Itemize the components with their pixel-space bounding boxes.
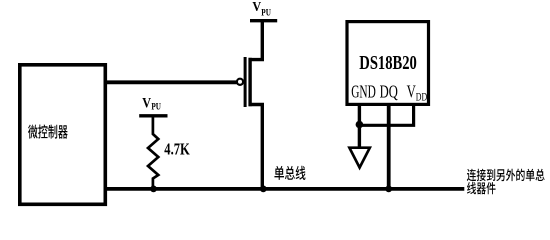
transistor Q1 drain wire to VPU (249, 22, 263, 60)
svg-text:4.7K: 4.7K (164, 139, 190, 158)
svg-text:DS18B20: DS18B20 (359, 53, 417, 74)
power VPU rail (resistor) (139, 114, 167, 117)
wire gate (box to Q1) (105, 80, 237, 84)
pin VDD wire (tied to GND) (359, 104, 413, 125)
label 微控制器 (28, 124, 68, 138)
node junction: Q1 source at bus (260, 186, 267, 193)
power VPU rail (top) (250, 19, 277, 22)
pin labels GND DQ VDD (351, 81, 427, 103)
pin GND wire (358, 104, 361, 148)
label VPU (top) (252, 0, 271, 19)
node junction: resistor to bus (150, 186, 157, 193)
transistor Q1 P-MOSFET gate bubble (237, 79, 243, 85)
label 连接到另外的单总 (line 1) (467, 169, 545, 182)
svg-text:GND: GND (351, 81, 376, 101)
svg-text:PU: PU (261, 9, 271, 19)
svg-text:PU: PU (151, 103, 161, 113)
transistor Q1 channel (248, 58, 251, 106)
svg-text:DD: DD (416, 91, 427, 103)
node junction: DQ at bus (385, 186, 392, 193)
microcontroller box (20, 65, 106, 205)
svg-text:V: V (252, 0, 261, 15)
resistor R1 4.7K zigzag (148, 118, 158, 189)
IC U1 DS18B20 box (347, 22, 429, 105)
transistor Q1 gate plate (244, 57, 247, 107)
ground symbol (349, 148, 369, 168)
svg-text:DQ: DQ (380, 81, 398, 101)
svg-text:V: V (142, 95, 151, 111)
label VPU (resistor) (142, 95, 161, 112)
wire bus (single-wire bus) (105, 187, 464, 191)
node junction: GND/VDD tie (356, 121, 364, 129)
label 单总线 (274, 166, 305, 180)
transistor Q1 source wire to bus (249, 105, 263, 191)
pin DQ wire (387, 104, 391, 190)
svg-text:V: V (407, 81, 416, 101)
label 线器件 (line 2) (467, 182, 496, 194)
